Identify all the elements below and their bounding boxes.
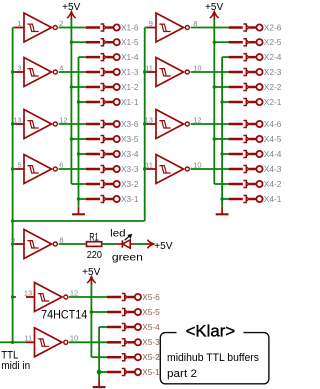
- svg-text:4: 4: [59, 63, 63, 72]
- svg-text:2: 2: [59, 19, 63, 28]
- svg-text:X5-4: X5-4: [142, 322, 160, 332]
- svg-text:12: 12: [70, 288, 78, 297]
- LED LED1 green: [110, 228, 143, 264]
- svg-text:8: 8: [59, 235, 63, 244]
- svg-text:X3-4: X3-4: [121, 149, 139, 159]
- connector pin X5-6: [107, 292, 160, 302]
- svg-text:10: 10: [193, 63, 201, 72]
- connector pin X2-4: [229, 52, 282, 62]
- wire GND stub (right): [222, 198, 229, 200]
- svg-text:X3-3: X3-3: [121, 164, 139, 174]
- junction: [220, 197, 223, 200]
- net GND right trunk: [221, 57, 223, 207]
- svg-text:X3-1: X3-1: [121, 194, 139, 204]
- svg-text:X4-3: X4-3: [264, 164, 282, 174]
- wire input to IC3F: [13, 296, 16, 298]
- wire input to IC2A: [145, 27, 148, 29]
- junction: [143, 70, 146, 73]
- connector pin X1-1: [86, 97, 139, 107]
- wire input to IC3E: [13, 341, 27, 343]
- supply +5V bottom: [82, 267, 101, 284]
- junction: [11, 167, 14, 170]
- connector pin X2-1: [229, 97, 282, 107]
- svg-text:11: 11: [24, 334, 32, 343]
- svg-text:midihub TTL buffers: midihub TTL buffers: [167, 352, 259, 364]
- connector pin X2-5: [229, 37, 282, 47]
- wire +5V stub (right): [214, 86, 228, 88]
- connector pin X1-5: [86, 37, 139, 47]
- connector pin X1-4: [86, 52, 139, 62]
- svg-text:13: 13: [145, 115, 153, 124]
- svg-text:X5-1: X5-1: [142, 367, 160, 377]
- wire GND stub (left): [79, 56, 86, 58]
- net GND bottom trunk: [98, 327, 100, 380]
- svg-text:9: 9: [11, 235, 15, 244]
- svg-text:12: 12: [59, 115, 67, 124]
- junction: [11, 341, 14, 344]
- svg-text:led: led: [110, 228, 126, 240]
- connector pin X4-2: [229, 179, 282, 189]
- svg-text:X5-6: X5-6: [142, 292, 160, 302]
- svg-text:11: 11: [145, 63, 153, 72]
- wire gate output to connector (left): [59, 27, 86, 29]
- svg-text:X2-1: X2-1: [264, 97, 282, 107]
- junction: [213, 137, 216, 140]
- svg-text:13: 13: [13, 115, 21, 124]
- connector pin X2-3: [229, 67, 282, 77]
- connector pin X3-4: [86, 149, 139, 159]
- svg-text:<Klar>: <Klar>: [186, 322, 236, 340]
- net +5V bottom trunk: [90, 283, 92, 357]
- junction: [143, 167, 146, 170]
- junction: [11, 70, 14, 73]
- svg-text:X3-5: X3-5: [121, 134, 139, 144]
- svg-text:74HCT14: 74HCT14: [41, 308, 88, 322]
- wire +5V stub (right): [214, 183, 228, 185]
- svg-text:X2-5: X2-5: [264, 37, 282, 47]
- svg-text:220: 220: [87, 249, 102, 261]
- net GND left trunk: [78, 57, 80, 207]
- wire gate output to connector (bottom): [69, 296, 107, 298]
- ground right: [216, 207, 229, 215]
- wire +5V stub (left): [71, 41, 85, 43]
- wire GND stub (left): [79, 153, 86, 155]
- inverter IC1D: [11, 230, 64, 259]
- svg-text:midi in: midi in: [1, 360, 30, 372]
- inverter IC2F: [145, 110, 202, 139]
- svg-text:X4-5: X4-5: [264, 134, 282, 144]
- net TTLIN: cross connect wire: [13, 220, 145, 222]
- wire +5V stub (right): [214, 41, 228, 43]
- svg-text:X1-6: X1-6: [121, 22, 139, 32]
- connector pin X1-2: [86, 82, 139, 92]
- svg-text:X3-2: X3-2: [121, 179, 139, 189]
- svg-text:5: 5: [17, 160, 21, 169]
- wire gate output to connector (bottom): [69, 341, 107, 343]
- svg-text:X3-6: X3-6: [121, 119, 139, 129]
- connector pin X4-1: [229, 194, 282, 204]
- connector pin X3-5: [86, 134, 139, 144]
- svg-text:X4-2: X4-2: [264, 179, 282, 189]
- wire input to IC1A: [13, 27, 16, 29]
- svg-text:10: 10: [193, 160, 201, 169]
- wire GND stub (left): [79, 198, 86, 200]
- wire input to IC1B: [13, 71, 16, 73]
- connector pin X3-2: [86, 179, 139, 189]
- svg-text:11: 11: [145, 160, 153, 169]
- svg-text:X1-2: X1-2: [121, 82, 139, 92]
- svg-text:R1: R1: [89, 231, 99, 243]
- svg-text:X2-4: X2-4: [264, 52, 282, 62]
- net TTLIN: off-page input wire: [0, 341, 13, 343]
- connector pin X5-5: [107, 307, 160, 317]
- svg-text:X5-5: X5-5: [142, 307, 160, 317]
- wire +5V stub (bottom): [91, 356, 107, 358]
- junction: [70, 137, 73, 140]
- connector pin X4-4: [229, 149, 282, 159]
- wire GND stub (bottom): [99, 326, 107, 328]
- inverter IC3E: [24, 328, 78, 357]
- svg-text:X1-5: X1-5: [121, 37, 139, 47]
- net TTLIN: right input trunk: [144, 28, 146, 222]
- junction: [77, 152, 80, 155]
- connector pin X5-3: [107, 337, 160, 347]
- wire gate output to connector (left): [59, 71, 86, 73]
- wire input to IC1D: [13, 243, 16, 245]
- inverter IC2C: [145, 155, 201, 184]
- junction: [77, 100, 80, 103]
- wire gate output to connector (left): [59, 123, 86, 125]
- svg-text:X1-1: X1-1: [121, 97, 139, 107]
- connector pin X3-6: [86, 119, 139, 129]
- wire R1 to LED1: [101, 243, 116, 245]
- junction: [11, 242, 14, 245]
- connector pin X1-6: [86, 22, 139, 32]
- wire IC1D output to R1: [59, 243, 86, 245]
- wire gate output to connector (left): [59, 168, 86, 170]
- svg-text:13: 13: [24, 288, 32, 297]
- resistor R1: [87, 231, 103, 260]
- junction: [220, 100, 223, 103]
- junction: [70, 41, 73, 44]
- svg-text:green: green: [112, 251, 143, 263]
- junction: [11, 122, 14, 125]
- connector pin X4-5: [229, 134, 282, 144]
- connector pin X5-2: [107, 352, 160, 362]
- wire GND stub (right): [222, 56, 229, 58]
- svg-text:X4-1: X4-1: [264, 194, 282, 204]
- wire gate output to connector (right): [191, 27, 229, 29]
- connector pin X4-6: [229, 119, 282, 129]
- inverter IC1B: [15, 58, 63, 87]
- supply +5V right-pointing at LED: [146, 240, 172, 252]
- junction: [97, 370, 102, 375]
- junction: [143, 122, 146, 125]
- wire input to IC2C: [145, 168, 148, 170]
- net +5V left trunk: [70, 19, 72, 184]
- svg-text:+5V: +5V: [154, 241, 173, 252]
- wire +5V stub (bottom): [91, 311, 107, 313]
- junction: [77, 197, 80, 200]
- wire LED1 to +5V: [135, 243, 147, 245]
- svg-text:6: 6: [59, 160, 63, 169]
- wire input to IC2F: [145, 123, 148, 125]
- svg-text:X2-2: X2-2: [264, 82, 282, 92]
- connector pin X2-2: [229, 82, 282, 92]
- junction: [220, 152, 223, 155]
- inverter IC2A: [147, 13, 197, 42]
- junction: [70, 85, 73, 88]
- svg-text:12: 12: [193, 115, 201, 124]
- connector pin X2-6: [229, 22, 282, 32]
- svg-text:X4-6: X4-6: [264, 119, 282, 129]
- svg-text:X1-3: X1-3: [121, 67, 139, 77]
- wire input to IC2B: [145, 71, 148, 73]
- connector pin X5-1: [107, 367, 160, 377]
- svg-text:part 2: part 2: [167, 368, 197, 380]
- connector pin X1-3: [86, 67, 139, 77]
- net +5V right trunk: [213, 19, 215, 184]
- ground left: [72, 207, 85, 215]
- wire GND stub (bottom): [99, 371, 107, 373]
- svg-text:X5-2: X5-2: [142, 352, 160, 362]
- wire +5V stub (right): [214, 138, 228, 140]
- wire +5V stub (left): [71, 138, 85, 140]
- svg-text:9: 9: [149, 19, 153, 28]
- connector pin X3-3: [86, 164, 139, 174]
- svg-text:10: 10: [70, 334, 78, 343]
- svg-text:X5-3: X5-3: [142, 337, 160, 347]
- wire gate output to connector (right): [191, 168, 229, 170]
- junction: [11, 295, 14, 298]
- inverter IC3F: [24, 283, 78, 312]
- connector pin X4-3: [229, 164, 282, 174]
- wire GND stub (right): [222, 153, 229, 155]
- frame <Klar> title box: [160, 322, 269, 383]
- svg-text:X2-6: X2-6: [264, 22, 282, 32]
- junction: [11, 219, 14, 222]
- inverter IC2B: [145, 58, 201, 87]
- wire gate output to connector (right): [191, 71, 229, 73]
- junction: [90, 310, 93, 313]
- svg-text:X4-4: X4-4: [264, 149, 282, 159]
- wire input to IC1C: [13, 168, 16, 170]
- svg-text:1: 1: [17, 19, 21, 28]
- wire +5V stub (left): [71, 86, 85, 88]
- wire input to IC1F: [13, 123, 16, 125]
- inverter IC1F: [13, 110, 67, 139]
- supply +5V left: [62, 2, 81, 19]
- supply +5V right: [205, 2, 224, 19]
- svg-text:X2-3: X2-3: [264, 67, 282, 77]
- svg-text:8: 8: [193, 19, 197, 28]
- inverter IC1A: [15, 13, 63, 42]
- ground bottom: [93, 380, 106, 388]
- svg-text:3: 3: [17, 63, 21, 72]
- svg-text:X1-4: X1-4: [121, 52, 139, 62]
- connector pin X3-1: [86, 194, 139, 204]
- wire +5V stub (left): [71, 183, 85, 185]
- wire GND stub (right): [222, 101, 229, 103]
- net TTLIN: left input trunk: [12, 28, 14, 343]
- inverter IC1C: [15, 155, 63, 184]
- junction: [213, 41, 216, 44]
- wire GND stub (left): [79, 101, 86, 103]
- wire gate output to connector (right): [191, 123, 229, 125]
- connector pin X5-4: [107, 322, 160, 332]
- junction: [213, 85, 216, 88]
